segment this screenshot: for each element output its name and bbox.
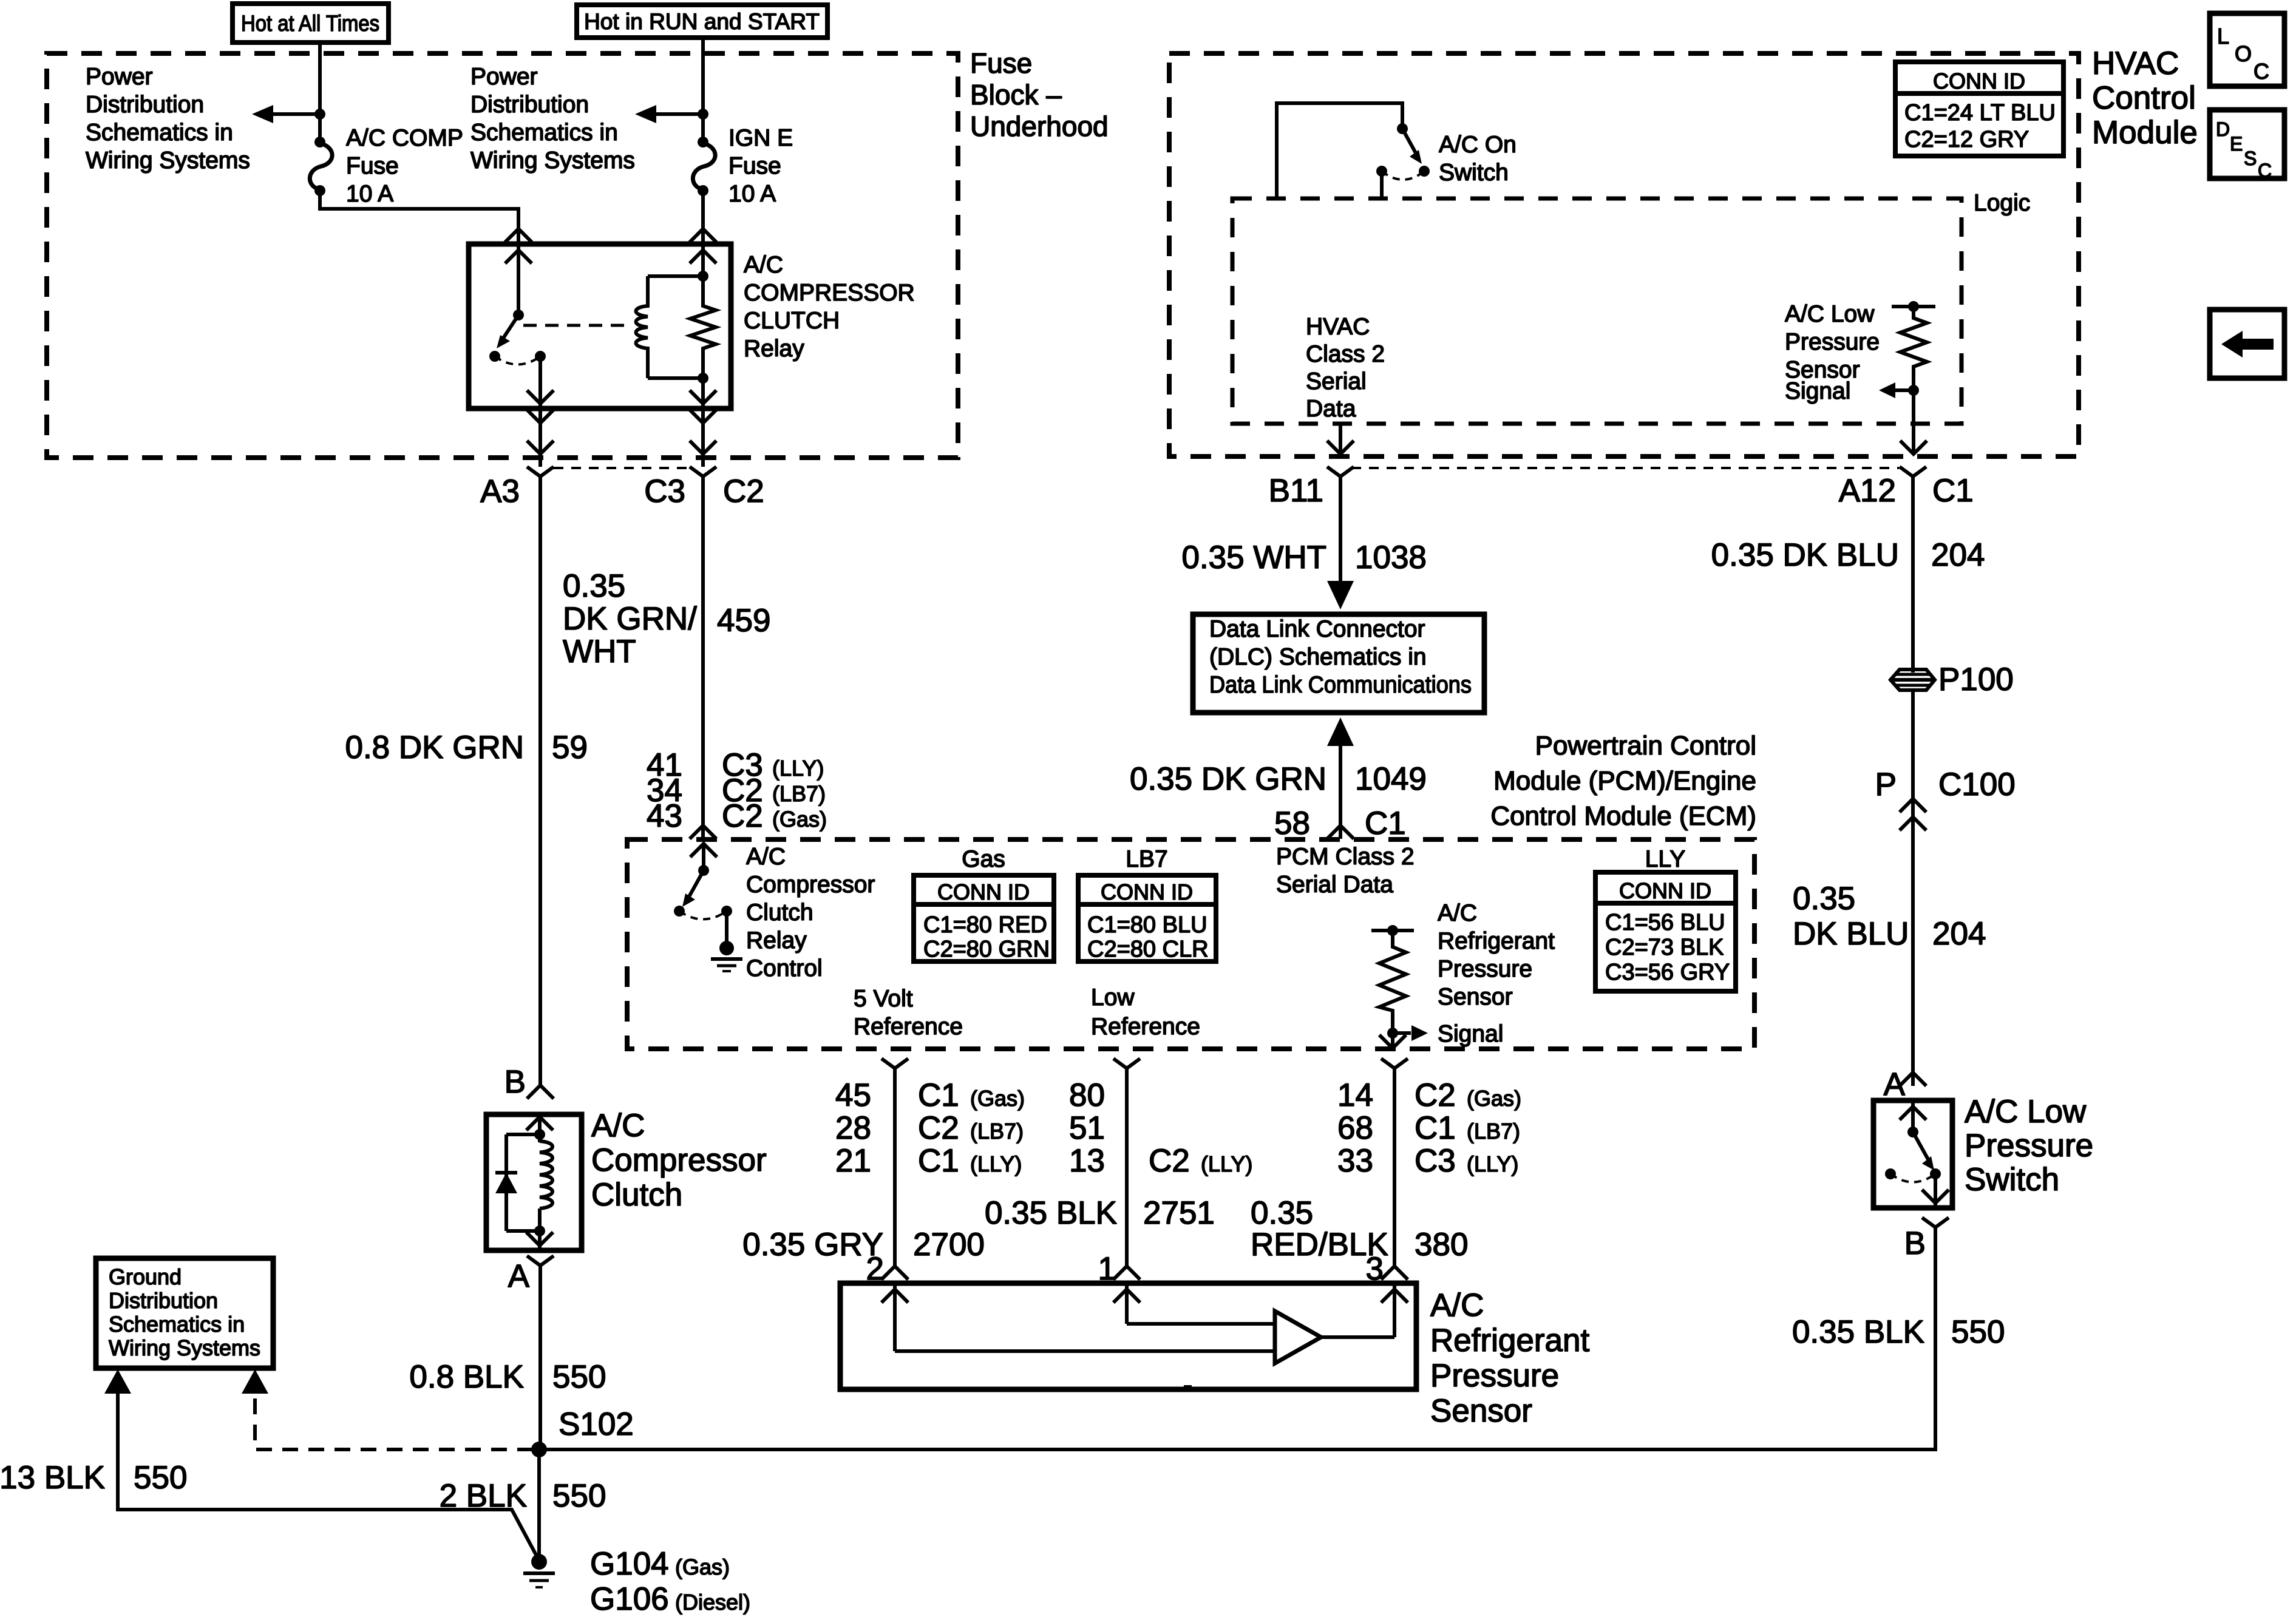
- svg-text:A/C: A/C: [591, 1108, 645, 1144]
- sensor amplifier: [1275, 1311, 1321, 1363]
- svg-text:Distribution: Distribution: [470, 92, 589, 118]
- wire: IGN E fuse to relay coil: [701, 191, 705, 243]
- DESC legend box: [2210, 110, 2284, 178]
- svg-text:A3: A3: [480, 473, 520, 509]
- svg-text:C2=73 BLK: C2=73 BLK: [1605, 935, 1724, 960]
- svg-text:550: 550: [552, 1478, 606, 1514]
- svg-text:Pressure: Pressure: [1785, 329, 1880, 355]
- svg-text:Clutch: Clutch: [746, 900, 813, 926]
- svg-text:(Gas): (Gas): [772, 807, 827, 832]
- svg-text:Reference: Reference: [1091, 1014, 1200, 1040]
- wire: fuse to relay pin 86: [320, 191, 518, 243]
- svg-text:(LLY): (LLY): [970, 1151, 1022, 1176]
- arrow: refrigerant signal: [1393, 1031, 1411, 1035]
- svg-text:C2=80 GRN: C2=80 GRN: [923, 937, 1050, 962]
- svg-text:C3=56 GRY: C3=56 GRY: [1605, 960, 1730, 985]
- connector Y below PCM at x=2297: [1381, 1059, 1408, 1068]
- svg-text:CLUTCH: CLUTCH: [744, 308, 840, 334]
- svg-text:0.35 BLK: 0.35 BLK: [985, 1195, 1117, 1231]
- svg-text:(DLC) Schematics in: (DLC) Schematics in: [1209, 644, 1427, 670]
- PCM relay control driver switch: [702, 842, 705, 870]
- clutch coil: [540, 1141, 552, 1209]
- svg-text:Distribution: Distribution: [109, 1288, 218, 1313]
- relay coil top pin: [701, 244, 705, 276]
- relay K1: A/C COMPRESSOR CLUTCH Relay box: [469, 244, 731, 408]
- connector chevron at relay top left: [505, 229, 532, 242]
- svg-text:14: 14: [1337, 1077, 1373, 1113]
- svg-text:HVAC: HVAC: [1306, 314, 1370, 340]
- svg-text:D: D: [2216, 118, 2230, 140]
- svg-text:(LLY): (LLY): [772, 756, 824, 781]
- connector Y at B (switch): [1922, 1218, 1949, 1227]
- svg-text:Relay: Relay: [744, 336, 804, 362]
- svg-text:Data: Data: [1306, 396, 1356, 422]
- svg-text:Logic: Logic: [1974, 190, 2030, 216]
- svg-text:0.35: 0.35: [563, 568, 625, 604]
- svg-text:C3: C3: [644, 473, 685, 509]
- svg-text:51: 51: [1069, 1110, 1105, 1146]
- svg-text:Clutch: Clutch: [591, 1177, 682, 1213]
- svg-text:P: P: [1875, 767, 1897, 802]
- svg-text:204: 204: [1932, 916, 1986, 952]
- sensor internal wiring: [895, 1349, 1275, 1353]
- svg-text:0.35 DK BLU: 0.35 DK BLU: [1711, 537, 1899, 573]
- svg-text:WHT: WHT: [563, 634, 636, 670]
- svg-text:80: 80: [1069, 1077, 1105, 1113]
- svg-text:43: 43: [647, 798, 682, 834]
- relay contact NC: [489, 351, 500, 362]
- svg-text:Powertrain Control: Powertrain Control: [1535, 731, 1756, 761]
- fuse F1: A/C COMP Fuse 10 A: [314, 137, 325, 147]
- relay switch arm: [502, 315, 518, 340]
- svg-text:A/C: A/C: [746, 844, 786, 870]
- svg-text:2700: 2700: [913, 1227, 985, 1263]
- svg-text:33: 33: [1337, 1143, 1373, 1179]
- wire: relay output to fuse block edge (A3): [538, 408, 542, 467]
- svg-text:Schematics in: Schematics in: [109, 1312, 245, 1337]
- svg-text:Module: Module: [2092, 115, 2198, 151]
- svg-text:Compressor: Compressor: [746, 872, 875, 898]
- connector dashed tie A3 to C3: [554, 467, 690, 469]
- svg-text:Wiring Systems: Wiring Systems: [86, 147, 250, 174]
- svg-text:0.35 BLK: 0.35 BLK: [1792, 1314, 1924, 1350]
- wire: clutch A to S102: [538, 1266, 542, 1449]
- svg-text:A: A: [508, 1258, 530, 1294]
- label box: Hot in RUN and START: [577, 5, 827, 38]
- svg-text:1038: 1038: [1355, 540, 1427, 575]
- connector chevron at switch top: [1900, 1073, 1926, 1086]
- wire: sensor signal out (A12): [1912, 390, 1915, 453]
- svg-text:Block –: Block –: [970, 79, 1062, 110]
- svg-text:C2=80 CLR: C2=80 CLR: [1087, 937, 1209, 962]
- svg-text:28: 28: [835, 1110, 871, 1146]
- node: refrigerant signal junction: [1387, 1028, 1398, 1039]
- svg-text:CONN ID: CONN ID: [937, 880, 1030, 904]
- connector chevron into sensor at x=2297: [1381, 1266, 1408, 1280]
- svg-text:DK GRN/: DK GRN/: [563, 601, 697, 637]
- svg-text:C1: C1: [918, 1077, 959, 1113]
- svg-text:G104: G104: [590, 1546, 669, 1582]
- svg-text:13 BLK: 13 BLK: [0, 1460, 105, 1496]
- svg-text:Module (PCM)/Engine: Module (PCM)/Engine: [1493, 766, 1756, 796]
- connector dashed tie B11 to A12: [1351, 467, 1899, 469]
- svg-text:Pressure: Pressure: [1965, 1128, 2093, 1164]
- svg-text:Switch: Switch: [1439, 160, 1509, 186]
- svg-text:S102: S102: [559, 1406, 634, 1442]
- HVAC logic dashed box: [1232, 198, 1961, 424]
- connector Y at A12: [1900, 467, 1926, 476]
- splice S102: [531, 1442, 547, 1457]
- arrow from PCM to DLC: [1327, 717, 1354, 746]
- switch: A/C Low Pressure Switch box: [1873, 1100, 1952, 1208]
- svg-text:Refrigerant: Refrigerant: [1438, 928, 1555, 954]
- svg-text:PCM Class 2: PCM Class 2: [1276, 844, 1415, 870]
- clutch coil feed: [538, 1114, 542, 1134]
- svg-text:Hot at All Times: Hot at All Times: [241, 11, 379, 36]
- svg-text:Hot in RUN and START: Hot in RUN and START: [584, 9, 820, 34]
- svg-text:C2: C2: [723, 473, 764, 509]
- resistor: A/C low pressure sensor pull-up: [1892, 305, 1935, 308]
- svg-text:58: 58: [1274, 805, 1310, 841]
- svg-text:IGN E: IGN E: [729, 125, 793, 151]
- svg-text:Reference: Reference: [854, 1014, 963, 1040]
- svg-text:Control: Control: [746, 955, 823, 981]
- connector Y at B11: [1327, 467, 1354, 476]
- connector chevron into sensor at x=1856: [1113, 1266, 1140, 1280]
- svg-text:Data Link Communications: Data Link Communications: [1209, 672, 1472, 698]
- svg-text:C1: C1: [1415, 1110, 1456, 1146]
- connector Y at A3: [527, 467, 554, 476]
- connector Y below clutch (A): [527, 1256, 554, 1266]
- svg-text:A: A: [1884, 1066, 1906, 1102]
- svg-text:COMPRESSOR: COMPRESSOR: [744, 280, 915, 306]
- sensor pin 3 internal: [1393, 1283, 1396, 1337]
- connector Y below PCM at x=1856: [1113, 1059, 1140, 1068]
- svg-text:C2: C2: [1415, 1077, 1456, 1113]
- svg-text:550: 550: [134, 1460, 187, 1496]
- svg-text:Gas: Gas: [962, 846, 1005, 872]
- wire: S102 to G104: [537, 1449, 541, 1562]
- svg-text:C1=80 BLU: C1=80 BLU: [1087, 912, 1207, 938]
- svg-text:Data Link Connector: Data Link Connector: [1209, 616, 1425, 642]
- svg-text:B: B: [1904, 1225, 1926, 1261]
- svg-text:Ground: Ground: [109, 1264, 182, 1289]
- svg-text:204: 204: [1931, 537, 1985, 573]
- svg-text:A/C: A/C: [1438, 900, 1477, 926]
- svg-text:(Gas): (Gas): [675, 1554, 730, 1579]
- svg-text:(LB7): (LB7): [772, 781, 826, 806]
- connector chevron into clutch: [527, 1085, 554, 1099]
- svg-text:21: 21: [835, 1143, 871, 1179]
- svg-text:10 A: 10 A: [729, 181, 776, 207]
- dashed ground branch to ground distribution: [255, 1391, 533, 1449]
- relay switch output wire: [538, 356, 542, 408]
- arrow to power distribution (right): [656, 112, 703, 116]
- svg-text:G106: G106: [590, 1581, 669, 1617]
- svg-text:C1=56 BLU: C1=56 BLU: [1605, 910, 1725, 935]
- wire: Hot at All Times feed: [318, 42, 322, 142]
- svg-text:Compressor: Compressor: [591, 1142, 767, 1178]
- A/C Compressor Clutch box: [486, 1114, 582, 1250]
- svg-text:Class 2: Class 2: [1306, 341, 1385, 367]
- A/C Refrigerant Pressure Sensor box: [840, 1283, 1416, 1389]
- svg-text:Sensor: Sensor: [1438, 984, 1513, 1010]
- svg-text:0.35: 0.35: [1251, 1195, 1313, 1231]
- svg-text:Signal: Signal: [1438, 1021, 1503, 1047]
- back-arrow legend box: [2210, 310, 2284, 378]
- svg-text:O: O: [2235, 41, 2252, 66]
- svg-text:Power: Power: [470, 64, 538, 90]
- svg-text:A/C: A/C: [744, 252, 783, 278]
- svg-text:(Gas): (Gas): [970, 1086, 1025, 1111]
- svg-text:E: E: [2230, 133, 2243, 155]
- Ground Distribution box: [96, 1258, 273, 1368]
- arrow into DLC: [1327, 581, 1354, 609]
- solid ground branch arrow: [104, 1369, 131, 1394]
- svg-text:A12: A12: [1839, 473, 1896, 509]
- node: coil top junction: [698, 271, 708, 282]
- svg-text:Low: Low: [1091, 985, 1135, 1011]
- low pressure switch arm: [1913, 1132, 1928, 1159]
- svg-text:10 A: 10 A: [346, 181, 393, 207]
- svg-text:380: 380: [1415, 1227, 1468, 1263]
- svg-text:550: 550: [552, 1359, 606, 1395]
- sensor pin 1 internal: [1125, 1283, 1129, 1324]
- relay contact NO: [535, 351, 546, 362]
- sensor pin 2 internal: [893, 1283, 897, 1351]
- ground G104/G106: [531, 1554, 547, 1570]
- svg-text:(LB7): (LB7): [1467, 1119, 1520, 1144]
- ground inside PCM: [725, 911, 729, 944]
- svg-text:C2: C2: [1149, 1143, 1190, 1179]
- svg-text:Refrigerant: Refrigerant: [1430, 1323, 1589, 1358]
- clutch output: [538, 1231, 542, 1250]
- svg-text:0.35 GRY: 0.35 GRY: [742, 1227, 883, 1263]
- relay switch common pin: [517, 244, 520, 315]
- svg-text:Control: Control: [2092, 80, 2196, 116]
- svg-text:(Gas): (Gas): [1467, 1086, 1521, 1111]
- svg-text:A/C Low: A/C Low: [1785, 301, 1875, 327]
- wire: P100 to C100: [1911, 689, 1915, 799]
- svg-text:HVAC: HVAC: [2092, 46, 2179, 81]
- driver switch arm: [688, 870, 704, 898]
- svg-text:C1=80 RED: C1=80 RED: [923, 912, 1047, 938]
- relay coil: [636, 276, 648, 378]
- svg-text:LB7: LB7: [1126, 846, 1167, 872]
- node: junction on IGN E feed: [698, 109, 708, 120]
- svg-text:0.35: 0.35: [1793, 881, 1855, 917]
- svg-text:CONN ID: CONN ID: [1101, 880, 1193, 904]
- svg-text:Switch: Switch: [1965, 1162, 2059, 1198]
- svg-text:C1: C1: [918, 1143, 959, 1179]
- svg-text:DK BLU: DK BLU: [1793, 916, 1909, 952]
- svg-text:68: 68: [1337, 1110, 1373, 1146]
- svg-text:LLY: LLY: [1645, 846, 1686, 872]
- connector chevron at PCM top (58 C1): [1327, 825, 1354, 839]
- node: sensor signal junction: [1908, 385, 1919, 396]
- svg-text:Pressure: Pressure: [1438, 956, 1532, 982]
- svg-text:Serial Data: Serial Data: [1276, 872, 1393, 898]
- svg-text:0.8 DK GRN: 0.8 DK GRN: [345, 730, 524, 765]
- svg-text:C1: C1: [1365, 805, 1406, 841]
- svg-text:(LB7): (LB7): [970, 1119, 1024, 1144]
- HVAC Control Module dashed box: [1169, 53, 2079, 456]
- svg-text:A/C On: A/C On: [1439, 132, 1517, 158]
- relay contact arc: [495, 356, 540, 365]
- svg-text:B: B: [504, 1064, 526, 1100]
- svg-text:0.8 BLK: 0.8 BLK: [409, 1359, 524, 1395]
- resistor: refrigerant pressure sensor reference: [1371, 929, 1414, 932]
- svg-text:(Diesel): (Diesel): [675, 1590, 750, 1615]
- svg-text:Sensor: Sensor: [1430, 1393, 1532, 1429]
- svg-text:550: 550: [1951, 1314, 2005, 1350]
- connector Y at C3/C2: [690, 467, 716, 476]
- svg-text:C100: C100: [1938, 767, 2016, 802]
- clutch diode: [506, 1133, 540, 1136]
- svg-text:Pressure: Pressure: [1430, 1358, 1559, 1394]
- svg-text:B11: B11: [1269, 473, 1323, 509]
- svg-text:2751: 2751: [1143, 1195, 1215, 1231]
- connector Y below PCM at x=1474: [881, 1059, 908, 1068]
- svg-text:Fuse: Fuse: [346, 153, 399, 179]
- svg-text:0.35 DK GRN: 0.35 DK GRN: [1130, 761, 1326, 797]
- low pressure switch output: [1934, 1174, 1937, 1207]
- svg-text:L: L: [2217, 24, 2229, 49]
- node: junction on A/C COMP feed: [314, 109, 325, 120]
- relay suppression resistor: [690, 276, 716, 378]
- arrow: signal into logic: [1894, 388, 1914, 392]
- Fuse Block - Underhood dashed box: [47, 53, 958, 458]
- relay coil bottom pin: [701, 378, 705, 408]
- node: coil bottom junction: [698, 373, 708, 384]
- svg-text:C2=12 GRY: C2=12 GRY: [1904, 127, 2029, 152]
- fuse F2: IGN E Fuse 10 A: [698, 137, 708, 147]
- switch: A/C On Switch: [1277, 103, 1402, 198]
- svg-text:59: 59: [552, 730, 588, 765]
- svg-text:C2: C2: [722, 798, 763, 834]
- svg-text:CONN ID: CONN ID: [1933, 69, 2025, 93]
- svg-text:Control Module (ECM): Control Module (ECM): [1490, 801, 1756, 831]
- svg-text:0.35 WHT: 0.35 WHT: [1181, 540, 1326, 575]
- svg-text:Signal: Signal: [1785, 378, 1850, 404]
- svg-text:13: 13: [1069, 1143, 1105, 1179]
- connector C100 double chevron: [1900, 799, 1926, 812]
- DLC reference box: [1193, 614, 1484, 713]
- svg-text:S: S: [2244, 147, 2257, 169]
- A/C On switch arm: [1402, 129, 1416, 153]
- svg-text:Power: Power: [86, 64, 153, 90]
- wire: HVAC class 2 serial data out (B11): [1339, 424, 1342, 453]
- connector chevron into sensor at x=1474: [881, 1266, 908, 1280]
- svg-text:Underhood: Underhood: [970, 110, 1109, 142]
- svg-text:C3: C3: [1415, 1143, 1456, 1179]
- svg-text:1049: 1049: [1355, 761, 1427, 797]
- LOC legend box: [2210, 13, 2284, 86]
- svg-text:A/C Low: A/C Low: [1965, 1094, 2087, 1130]
- svg-text:5 Volt: 5 Volt: [854, 986, 913, 1012]
- svg-text:A/C: A/C: [1430, 1287, 1484, 1323]
- svg-text:C: C: [2258, 160, 2272, 181]
- PCM/ECM dashed box: [627, 839, 1754, 1049]
- svg-text:C2: C2: [918, 1110, 959, 1146]
- svg-text:Wiring Systems: Wiring Systems: [109, 1335, 260, 1360]
- svg-text:Fuse: Fuse: [729, 153, 781, 179]
- wire: Hot in RUN and START feed: [701, 38, 705, 142]
- arrow to power distribution (left): [273, 112, 320, 116]
- svg-text:CONN ID: CONN ID: [1619, 878, 1711, 903]
- svg-text:Wiring Systems: Wiring Systems: [470, 147, 635, 174]
- wire: switch B to S102: [539, 1227, 1935, 1449]
- svg-text:A/C COMP: A/C COMP: [346, 125, 463, 151]
- wire: refrigerant signal down: [1391, 1033, 1394, 1048]
- svg-text:Schematics in: Schematics in: [86, 120, 233, 146]
- svg-text:C: C: [2254, 59, 2269, 84]
- A/C On switch contacts: [1419, 166, 1430, 177]
- svg-text:459: 459: [717, 603, 770, 639]
- relay actuation dashed link: [523, 324, 631, 327]
- connector chevron at relay top right: [690, 229, 716, 242]
- svg-text:C1: C1: [1932, 473, 1974, 509]
- svg-text:(LLY): (LLY): [1201, 1151, 1252, 1176]
- connector chevron at PCM top (43 C2): [690, 825, 716, 839]
- wire: relay coil to fuse block edge (C3/C2): [701, 408, 705, 467]
- svg-text:P100: P100: [1938, 662, 2014, 697]
- svg-text:2 BLK: 2 BLK: [440, 1478, 527, 1514]
- svg-text:Relay: Relay: [746, 927, 807, 954]
- svg-text:Serial: Serial: [1306, 368, 1367, 395]
- svg-text:45: 45: [835, 1077, 871, 1113]
- svg-text:Fuse: Fuse: [970, 47, 1032, 79]
- svg-text:(LLY): (LLY): [1467, 1151, 1518, 1176]
- label box: Hot at All Times: [233, 4, 389, 42]
- wire: 13 BLK ground branch: [118, 1392, 539, 1561]
- svg-text:Distribution: Distribution: [86, 92, 204, 118]
- svg-text:C1=24 LT BLU: C1=24 LT BLU: [1904, 100, 2056, 126]
- grommet P100: [1890, 670, 1935, 690]
- svg-text:Schematics in: Schematics in: [470, 120, 618, 146]
- HVAC CONN ID table: [1895, 62, 2063, 156]
